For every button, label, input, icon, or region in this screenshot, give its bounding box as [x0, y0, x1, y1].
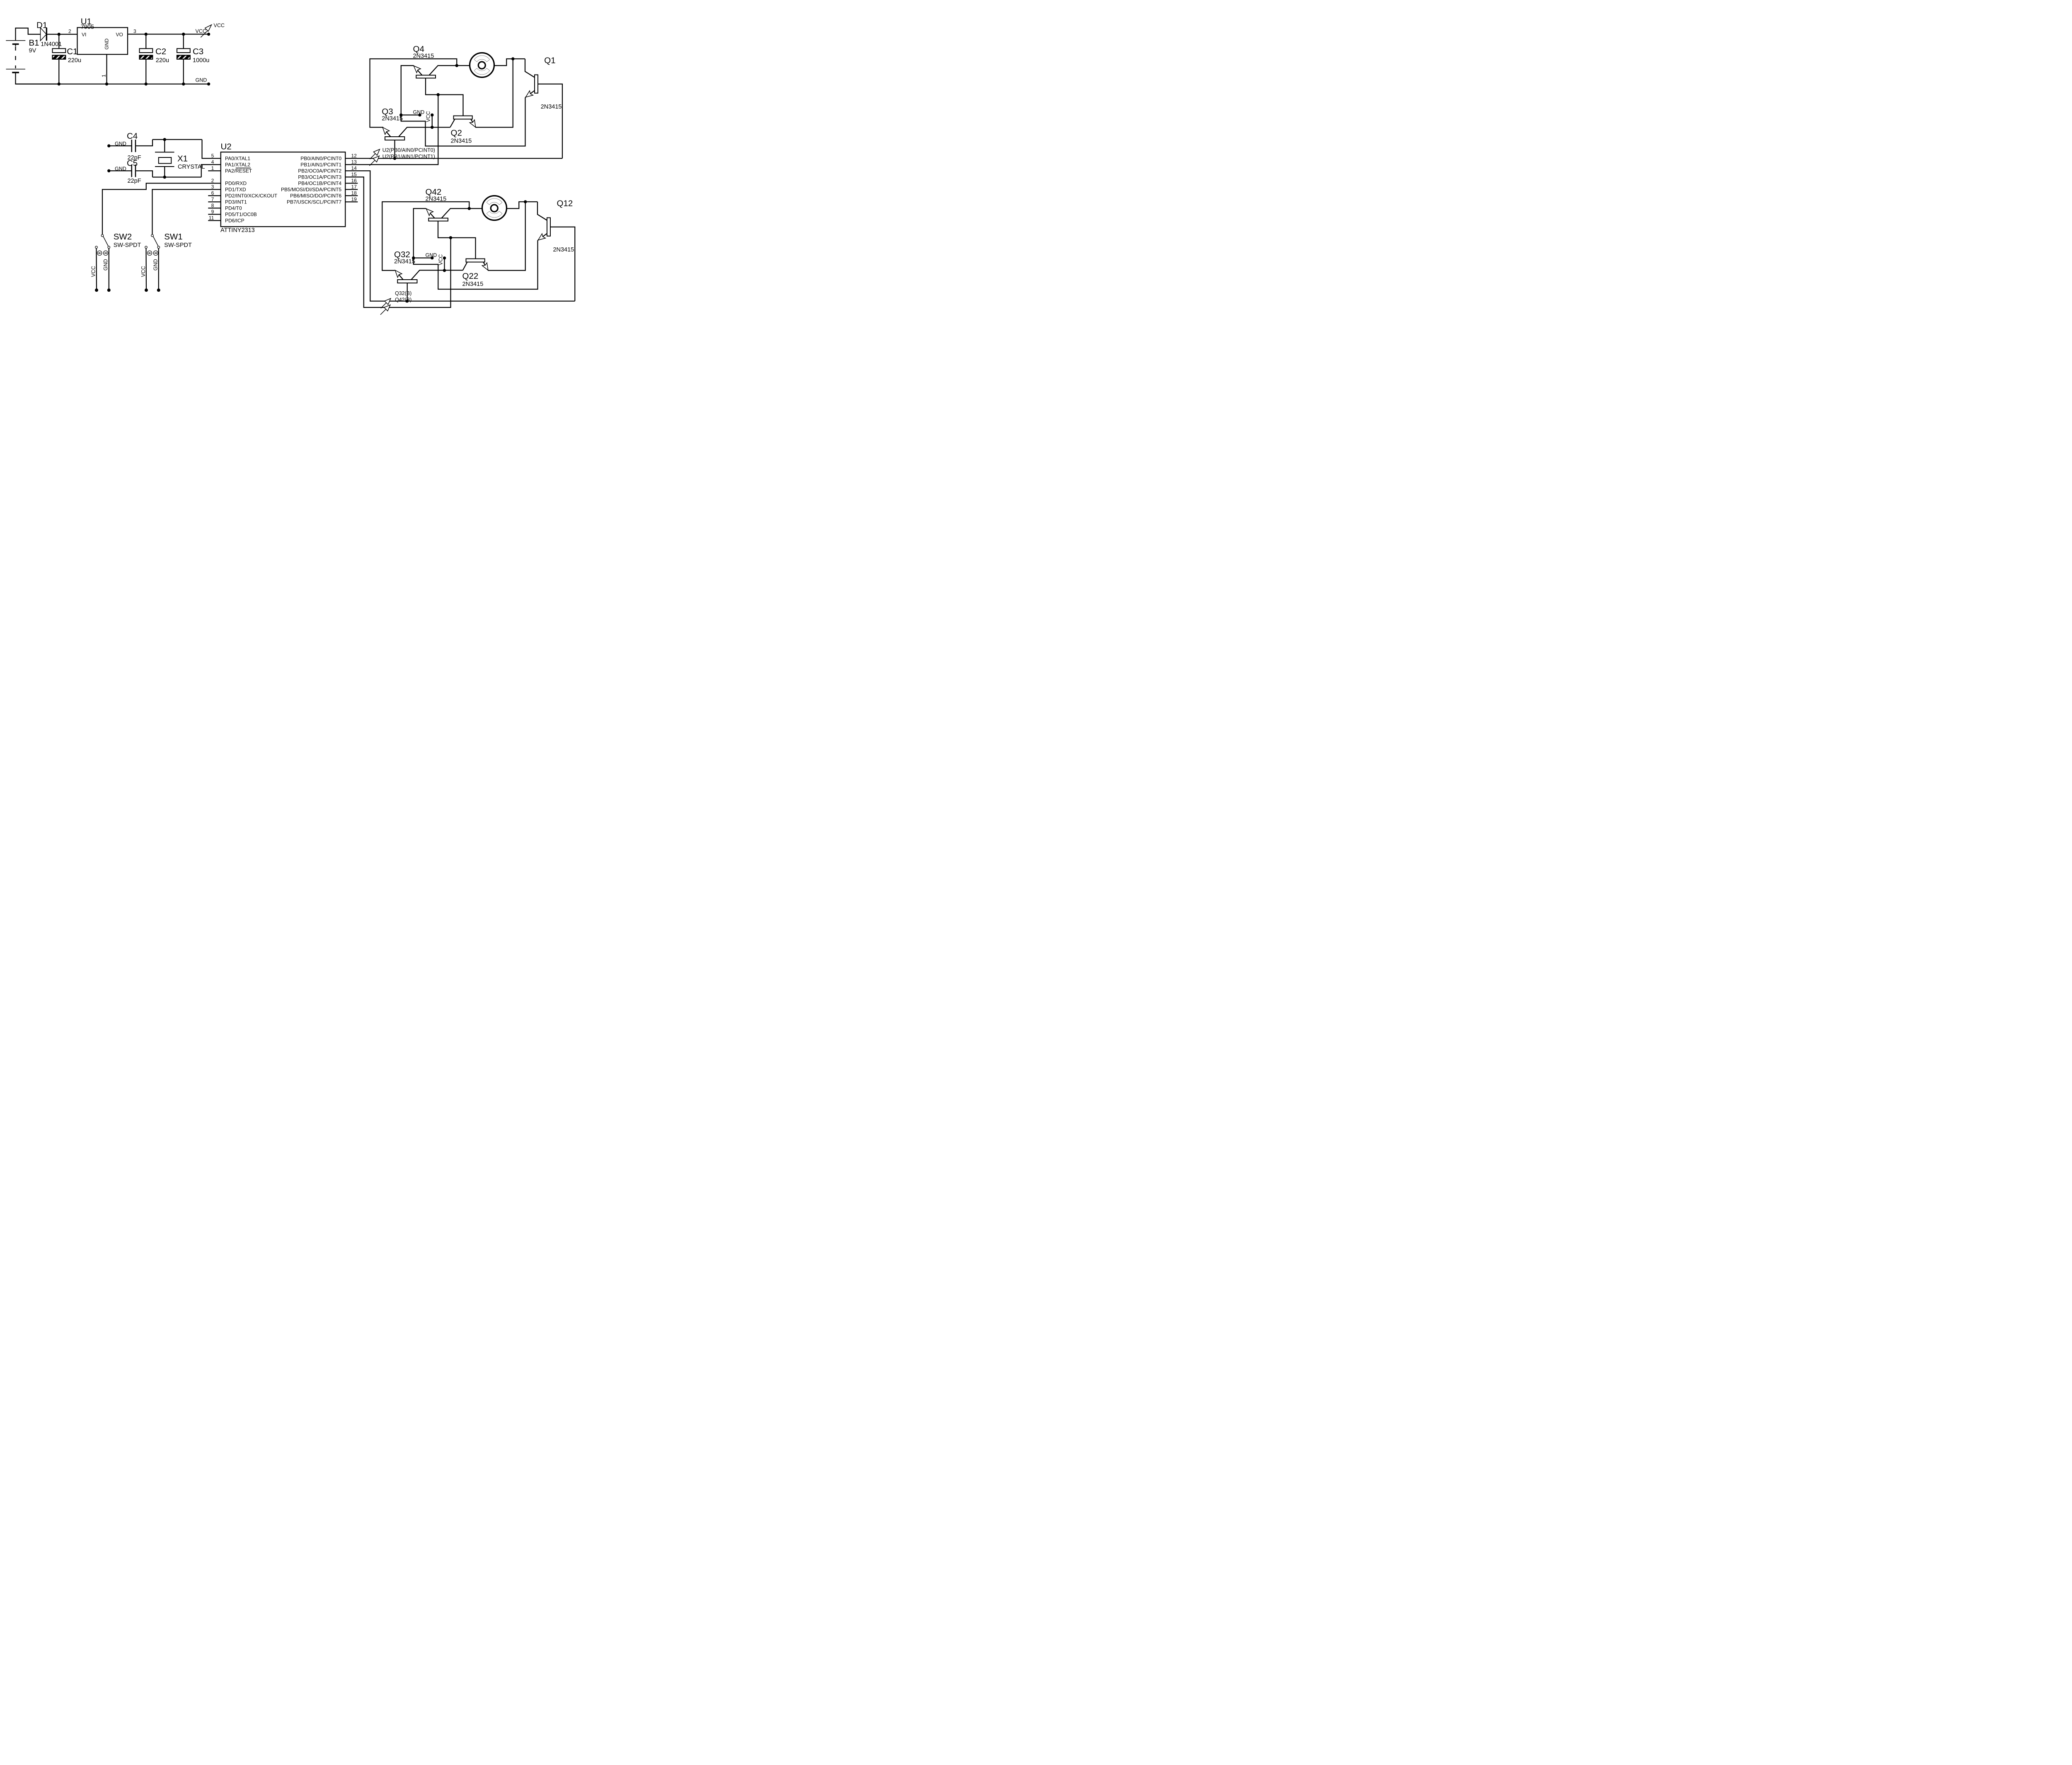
svg-text:PB5/MOSI/DI/SDA/PCINT5: PB5/MOSI/DI/SDA/PCINT5	[281, 187, 341, 193]
svg-text:PD1/TXD: PD1/TXD	[225, 187, 246, 193]
svg-text:C3: C3	[193, 47, 203, 56]
junction C3 top	[182, 33, 185, 36]
ground GND block2	[412, 252, 437, 259]
svg-text:GND: GND	[413, 109, 425, 115]
wire top rail block1	[370, 59, 457, 127]
switch SW1	[140, 232, 192, 292]
wire VO to VCC	[128, 32, 209, 36]
pin 19 PB7	[287, 196, 358, 205]
switch SW2	[91, 232, 141, 292]
transistor Q32	[394, 250, 463, 301]
svg-text:SW2: SW2	[114, 232, 132, 242]
pin 8 PD4	[208, 203, 242, 211]
pin 13 PB1	[300, 159, 357, 168]
svg-text:2N3415: 2N3415	[451, 138, 472, 145]
wire PB3 net	[345, 177, 450, 307]
svg-text:5: 5	[211, 153, 214, 159]
svg-text:PB4/OC1B/PCINT4: PB4/OC1B/PCINT4	[298, 181, 341, 186]
svg-text:PB3/OC1A/PCINT3: PB3/OC1A/PCINT3	[298, 174, 341, 180]
wire PD0 to SW2	[102, 183, 221, 235]
pin 5 PA0	[211, 153, 251, 162]
svg-text:19: 19	[351, 196, 357, 202]
svg-text:2N3415: 2N3415	[382, 116, 403, 122]
svg-text:PA1/XTAL2: PA1/XTAL2	[225, 162, 250, 168]
svg-text:PB6/MISO/DO/PCINT6: PB6/MISO/DO/PCINT6	[290, 193, 341, 199]
junction C2 top	[145, 33, 148, 36]
svg-text:PB2/OC0A/PCINT2: PB2/OC0A/PCINT2	[298, 168, 341, 174]
node junction at C1 top	[58, 33, 61, 36]
svg-text:18: 18	[351, 190, 357, 196]
junction Q4/Q2 base	[437, 93, 440, 97]
svg-text:X1: X1	[177, 154, 188, 164]
svg-text:C4: C4	[127, 131, 138, 141]
VCC terminal	[196, 23, 225, 38]
net label arrow Q42(B)	[380, 305, 390, 315]
svg-text:VCC: VCC	[140, 266, 146, 277]
pin 3 PD1	[211, 184, 246, 193]
svg-text:1: 1	[211, 165, 214, 171]
svg-text:2N3415: 2N3415	[462, 281, 484, 288]
svg-text:PD5/T1/OC0B: PD5/T1/OC0B	[225, 212, 257, 218]
svg-text:B1: B1	[29, 38, 39, 48]
svg-text:6: 6	[211, 190, 214, 196]
svg-text:PA2/RESET: PA2/RESET	[225, 168, 252, 174]
svg-text:SW-SPDT: SW-SPDT	[164, 242, 192, 249]
svg-text:ATTINY2313: ATTINY2313	[220, 227, 255, 234]
svg-text:9V: 9V	[29, 48, 36, 54]
svg-text:PA0/XTAL1: PA0/XTAL1	[225, 156, 250, 162]
transistor Q12	[537, 198, 575, 301]
svg-text:U2(PB0/AIN0/PCINT0): U2(PB0/AIN0/PCINT0)	[382, 147, 435, 153]
svg-text:PD6/ICP: PD6/ICP	[225, 218, 244, 224]
svg-text:Q22: Q22	[462, 271, 479, 281]
pin 17 PB5	[281, 184, 358, 193]
svg-text:12: 12	[351, 153, 357, 159]
pin 1 PA2	[208, 165, 252, 174]
svg-text:Q1: Q1	[544, 56, 555, 65]
transistor Q22	[462, 202, 525, 288]
svg-text:17: 17	[351, 184, 357, 190]
junction Q3 base / PB0	[393, 157, 397, 160]
regulator U1	[77, 17, 128, 55]
svg-text:SW1: SW1	[164, 232, 182, 242]
svg-text:Q42: Q42	[426, 187, 442, 197]
junction Q32 base / PB2 net	[406, 300, 409, 303]
svg-text:Q3: Q3	[382, 107, 393, 116]
svg-text:GND: GND	[104, 39, 110, 50]
svg-text:PD4/T0: PD4/T0	[225, 206, 242, 211]
junction C3 bottom	[182, 82, 185, 86]
svg-text:C1: C1	[67, 47, 77, 56]
svg-text:PD0/RXD: PD0/RXD	[225, 181, 247, 186]
wire pin5 xtal1	[202, 140, 221, 159]
crystal X1	[152, 138, 205, 179]
svg-text:220u: 220u	[68, 57, 81, 64]
svg-text:4: 4	[211, 159, 214, 165]
svg-text:VCC: VCC	[438, 254, 443, 265]
U1 GND lead pin 1	[101, 54, 107, 84]
pin 15 PB3	[298, 172, 357, 180]
svg-text:2N3415: 2N3415	[553, 247, 574, 253]
svg-text:22pF: 22pF	[128, 178, 141, 184]
svg-text:U2: U2	[221, 142, 232, 152]
svg-text:3: 3	[211, 184, 214, 190]
capacitor C1	[53, 36, 82, 84]
pin 6 PD2	[208, 190, 277, 199]
capacitor C3	[177, 34, 209, 84]
svg-text:16: 16	[351, 178, 357, 184]
wire Q42 emitter to GND run	[414, 208, 538, 289]
transistor Q4	[413, 44, 463, 116]
svg-text:GND: GND	[426, 252, 437, 258]
svg-text:2N3415: 2N3415	[541, 104, 562, 110]
svg-text:Q32(B): Q32(B)	[395, 290, 411, 296]
junction Q42/Q22 base	[449, 236, 453, 239]
wire PB1 net	[345, 95, 438, 165]
power VCC block2	[438, 254, 446, 272]
svg-text:GND: GND	[196, 77, 207, 83]
wire PB2 net	[345, 171, 575, 301]
svg-text:GND: GND	[103, 259, 109, 271]
junction C1 bottom	[58, 82, 61, 86]
svg-text:8: 8	[211, 203, 214, 208]
pin 16 PB4	[298, 178, 358, 186]
wire pin4 xtal2	[201, 164, 221, 177]
svg-text:1: 1	[101, 74, 107, 77]
pin 18 PB6	[290, 190, 358, 199]
svg-text:2: 2	[211, 178, 214, 184]
svg-text:C5: C5	[127, 159, 138, 168]
svg-text:13: 13	[351, 159, 357, 165]
svg-text:2N3415: 2N3415	[394, 259, 415, 265]
diode D1	[36, 21, 77, 48]
svg-text:PD2/INT0/XCK/CKOUT: PD2/INT0/XCK/CKOUT	[225, 193, 278, 199]
svg-text:15: 15	[351, 172, 357, 177]
net label arrow Q32(B)	[381, 298, 391, 308]
pin 2 PD0	[211, 178, 247, 186]
svg-text:PB1/AIN1/PCINT1: PB1/AIN1/PCINT1	[300, 162, 341, 168]
svg-text:SW-SPDT: SW-SPDT	[114, 242, 141, 249]
wire GND rail	[16, 82, 209, 86]
svg-text:VI: VI	[82, 32, 86, 38]
battery B1	[6, 28, 59, 84]
net label arrow PB1	[370, 156, 380, 166]
capacitor C5	[107, 159, 152, 185]
svg-text:Q32: Q32	[394, 250, 410, 259]
transistor Q1	[525, 56, 562, 158]
svg-text:PB0/AIN0/PCINT0: PB0/AIN0/PCINT0	[300, 156, 341, 162]
svg-text:3: 3	[133, 29, 136, 34]
svg-text:2N3415: 2N3415	[426, 196, 447, 203]
svg-text:U2(PB1/AIN1/PCINT1): U2(PB1/AIN1/PCINT1)	[382, 154, 435, 160]
svg-text:11: 11	[209, 215, 214, 221]
capacitor C2	[140, 34, 169, 84]
junction Q4 collector / motor1 left	[455, 64, 459, 68]
svg-text:Q12: Q12	[557, 198, 573, 208]
svg-text:PB7/USCK/SCL/PCINT7: PB7/USCK/SCL/PCINT7	[287, 199, 341, 205]
svg-text:1000u: 1000u	[193, 57, 209, 64]
pin 12 PB0	[300, 153, 357, 162]
svg-text:7905: 7905	[81, 24, 94, 30]
svg-text:C2: C2	[155, 47, 166, 56]
pin 4 PA1	[211, 159, 251, 168]
motor M1	[457, 53, 525, 77]
junction motor2 right / Q12 collector	[524, 200, 527, 203]
pin 14 PB2	[298, 165, 357, 174]
transistor Q42	[426, 187, 476, 259]
svg-text:14: 14	[351, 165, 357, 171]
svg-text:9: 9	[211, 209, 214, 215]
svg-text:Q4: Q4	[413, 44, 424, 54]
svg-text:Q2: Q2	[451, 128, 462, 138]
svg-text:VCC: VCC	[91, 266, 97, 277]
pin 9 PD5	[208, 209, 257, 218]
GND terminal	[196, 77, 211, 86]
transistor Q3	[382, 107, 450, 159]
svg-text:2: 2	[68, 29, 71, 34]
svg-text:GND: GND	[152, 259, 158, 271]
svg-text:VCC: VCC	[196, 29, 206, 34]
svg-text:220u: 220u	[156, 57, 169, 64]
wire PB0 net	[345, 157, 562, 160]
junction U1 gnd	[105, 82, 109, 86]
svg-text:Q42(B): Q42(B)	[395, 297, 411, 302]
junction Q42 collector / motor2 left	[468, 207, 471, 210]
transistor Q2	[450, 59, 513, 145]
net label arrow PB0	[370, 149, 380, 159]
power VCC block1	[426, 111, 434, 129]
wire top rail block2	[382, 202, 469, 271]
svg-text:7: 7	[211, 196, 214, 202]
pin 11 PD6	[208, 215, 244, 224]
junction motor1 right / Q1 collector	[511, 57, 515, 60]
wire PD1 to SW1	[152, 189, 221, 235]
capacitor C4	[107, 131, 152, 161]
pin 7 PD3	[208, 196, 247, 205]
svg-text:D1: D1	[36, 21, 47, 30]
motor M2	[469, 196, 537, 220]
svg-text:VO: VO	[116, 32, 123, 38]
svg-text:PD3/INT1: PD3/INT1	[225, 199, 247, 205]
ground GND block1	[399, 109, 424, 116]
svg-text:2N3415: 2N3415	[413, 53, 434, 60]
wire Q4 emitter to GND run	[401, 65, 525, 146]
svg-text:VCC: VCC	[426, 111, 431, 122]
svg-text:VCC: VCC	[214, 23, 225, 29]
junction C2 bottom	[145, 82, 148, 86]
